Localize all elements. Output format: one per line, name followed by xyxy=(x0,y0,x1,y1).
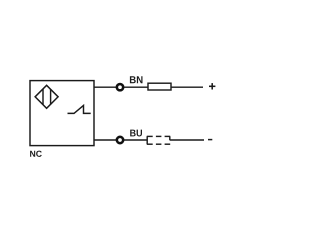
wire BU (bottom wire from sensor to -) xyxy=(94,139,204,141)
plus terminal xyxy=(209,83,215,89)
dashed load outline xyxy=(147,136,170,144)
terminal circle BN xyxy=(117,84,123,90)
switching-output ramp symbol xyxy=(68,105,91,113)
label NC xyxy=(30,151,42,157)
minus terminal xyxy=(208,139,212,141)
wire BN (top wire from sensor to +) xyxy=(94,86,203,88)
label BU xyxy=(130,130,142,137)
label BN xyxy=(130,76,143,83)
dashed load on BU wire (white body) xyxy=(147,136,170,144)
resistor (load) on BN wire xyxy=(148,83,171,90)
terminal circle BU xyxy=(117,137,123,143)
sensor body (proximity switch enclosure) xyxy=(30,81,94,146)
proximity sensor symbol (diamond) xyxy=(35,85,58,108)
